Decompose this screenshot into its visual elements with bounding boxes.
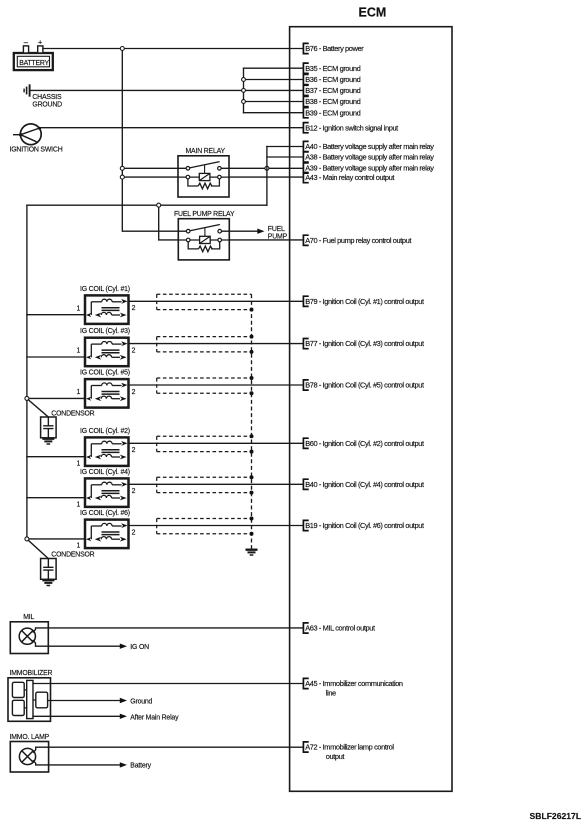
node fuel pump relay coil tap — [157, 203, 161, 207]
node bus B38 — [242, 100, 246, 104]
wire coil #3 pin2 to ECM — [129, 343, 303, 345]
condensor 1 CONDENSOR — [41, 410, 95, 444]
wire coil #1 pin2 to ECM — [129, 300, 303, 302]
svg-text:A40 - Battery voltage supply a: A40 - Battery voltage supply after main … — [305, 142, 434, 151]
svg-text:FUEL: FUEL — [268, 226, 285, 233]
svg-text:2: 2 — [132, 305, 136, 312]
wire battery feed to main relay coil — [124, 176, 178, 178]
wire bus to B38 — [244, 101, 303, 103]
wire coil #5 pin1 feed — [27, 397, 85, 399]
pin B77 — [303, 339, 424, 349]
wire after-main-relay horizontal to left bus — [27, 204, 267, 206]
svg-text:2: 2 — [132, 529, 136, 536]
pin B76 — [303, 43, 364, 53]
wire bus to B35 — [244, 67, 303, 69]
pin A70 — [303, 235, 411, 245]
svg-text:CONDENSOR: CONDENSOR — [51, 552, 94, 559]
svg-text:CHASSIS: CHASSIS — [32, 94, 62, 101]
svg-text:output: output — [326, 752, 345, 761]
wire main relay output to A39 — [229, 167, 303, 169]
pin B38 — [303, 96, 360, 106]
svg-text:IG COIL (Cyl. #3): IG COIL (Cyl. #3) — [80, 328, 130, 335]
svg-text:BATTERY: BATTERY — [19, 60, 49, 67]
wire to A38 — [267, 156, 303, 158]
svg-text:ECM: ECM — [359, 6, 387, 20]
shield dashed loop coil #6 — [157, 519, 252, 534]
svg-text:A70 - Fuel pump relay control: A70 - Fuel pump relay control output — [305, 236, 411, 245]
svg-text:B79 - Ignition Coil (Cyl. #1): B79 - Ignition Coil (Cyl. #1) control ou… — [305, 297, 424, 306]
ignition coil IG COIL (Cyl. #2) — [77, 428, 136, 468]
svg-text:+: + — [38, 38, 43, 47]
wire immobilizer to A45 — [33, 683, 303, 685]
ignition switch — [10, 124, 63, 154]
wire immobilizer to After Main Relay — [33, 714, 179, 722]
wire A40/A38 branch vertical — [266, 147, 268, 206]
svg-text:A45 - Immobilizer communicatio: A45 - Immobilizer communication — [305, 679, 403, 688]
svg-text:B39 - ECM ground: B39 - ECM ground — [305, 108, 360, 117]
pin B36 — [303, 74, 360, 84]
ground shield bus — [246, 550, 258, 555]
svg-text:1: 1 — [77, 305, 81, 312]
shield dashed loop coil #4 — [157, 477, 252, 492]
svg-text:B60 - Ignition Coil (Cyl. #2): B60 - Ignition Coil (Cyl. #2) control ou… — [305, 439, 424, 448]
node shield bus junction — [250, 475, 254, 479]
svg-text:B38 - ECM ground: B38 - ECM ground — [305, 97, 360, 106]
wire coil #6 pin2 to ECM — [129, 525, 303, 527]
node condensor 2 tap — [25, 537, 29, 541]
ignition coil IG COIL (Cyl. #1) — [77, 286, 136, 324]
wire MIL to IG ON — [33, 640, 149, 651]
node shield bus junction — [250, 335, 254, 339]
wire coil #2 pin2 to ECM — [129, 442, 303, 444]
svg-text:2: 2 — [132, 347, 136, 354]
pin A72 — [303, 742, 394, 761]
svg-text:B77 - Ignition Coil (Cyl. #3): B77 - Ignition Coil (Cyl. #3) control ou… — [305, 339, 424, 348]
pin A38 — [303, 152, 434, 162]
svg-text:CONDENSOR: CONDENSOR — [51, 410, 94, 417]
svg-text:2: 2 — [132, 447, 136, 454]
svg-text:A38 - Battery voltage supply a: A38 - Battery voltage supply after main … — [305, 153, 434, 162]
wire immo lamp to A72 — [33, 747, 302, 752]
svg-text:1: 1 — [77, 460, 81, 467]
svg-text:After Main Relay: After Main Relay — [130, 714, 179, 721]
condensor 2 CONDENSOR — [41, 552, 95, 586]
node shield bus junction — [250, 532, 254, 536]
wire to A40 — [267, 146, 303, 148]
svg-text:IG COIL (Cyl. #4): IG COIL (Cyl. #4) — [80, 469, 130, 476]
node shield bus junction — [250, 450, 254, 454]
wire condensor 2 diagonal — [28, 540, 48, 558]
svg-text:IGNITION SWICH: IGNITION SWICH — [10, 147, 63, 154]
svg-text:B78 - Ignition Coil (Cyl. #5): B78 - Ignition Coil (Cyl. #5) control ou… — [305, 381, 424, 390]
wire tap down to fuel pump relay coil — [159, 207, 179, 240]
ECM module box — [290, 6, 452, 792]
wire immo lamp to Battery — [33, 761, 151, 770]
pin B37 — [303, 85, 360, 95]
svg-text:B36 - ECM ground: B36 - ECM ground — [305, 75, 360, 84]
node shield bus junction — [250, 491, 254, 495]
immobilizer IMMOBILIZER — [8, 670, 53, 721]
svg-text:Battery: Battery — [130, 763, 151, 770]
main relay MAIN RELAY — [178, 148, 229, 197]
svg-text:line: line — [326, 689, 336, 698]
wire coil #2 pin1 feed — [27, 456, 85, 458]
wire coil #4 pin2 to ECM — [129, 483, 303, 485]
node shield bus junction — [250, 434, 254, 438]
node shield bus junction — [250, 308, 254, 312]
svg-text:IG COIL (Cyl. #2): IG COIL (Cyl. #2) — [80, 428, 130, 435]
svg-text:IMMO. LAMP: IMMO. LAMP — [10, 734, 50, 741]
wire coil #5 pin2 to ECM — [129, 384, 303, 386]
svg-text:A43 - Main relay control outpu: A43 - Main relay control output — [305, 173, 394, 182]
node main relay switch feed — [120, 166, 124, 170]
pin B39 — [303, 108, 360, 118]
wire battery feed vertical down to fuel pump relay — [122, 51, 178, 232]
wire battery to B76 — [43, 48, 303, 50]
node shield bus junction — [250, 517, 254, 521]
svg-text:2: 2 — [132, 389, 136, 396]
shield dashed loop coil #5 — [157, 378, 252, 393]
pin B12 — [303, 123, 398, 133]
ignition coil IG COIL (Cyl. #5) — [77, 370, 136, 408]
wire condensor 1 diagonal — [28, 400, 48, 417]
wire ECM ground bus vertical — [243, 68, 245, 113]
svg-text:B19 - Ignition Coil (Cyl. #6): B19 - Ignition Coil (Cyl. #6) control ou… — [305, 521, 424, 530]
ignition coil IG COIL (Cyl. #6) — [77, 510, 136, 550]
wire bus to B36 — [244, 79, 303, 81]
svg-text:MIL: MIL — [23, 614, 34, 621]
pin A39 — [303, 163, 434, 173]
shield dashed loop coil #3 — [157, 337, 252, 352]
svg-text:1: 1 — [77, 501, 81, 508]
svg-text:IG ON: IG ON — [130, 644, 149, 651]
svg-text:IG COIL (Cyl. #5): IG COIL (Cyl. #5) — [80, 370, 130, 377]
svg-text:IG COIL (Cyl. #1): IG COIL (Cyl. #1) — [80, 286, 130, 293]
node shield bus junction — [250, 391, 254, 395]
node shield bus junction — [250, 376, 254, 380]
MIL lamp — [10, 614, 48, 654]
shield dashed loop coil #2 — [157, 436, 252, 451]
svg-text:IG COIL (Cyl. #6): IG COIL (Cyl. #6) — [80, 510, 130, 517]
svg-text:SBLF26217L: SBLF26217L — [530, 811, 582, 821]
pin B19 — [303, 520, 424, 530]
svg-text:FUEL PUMP RELAY: FUEL PUMP RELAY — [174, 211, 235, 218]
svg-text:B40 - Ignition Coil (Cyl. #4): B40 - Ignition Coil (Cyl. #4) control ou… — [305, 480, 424, 489]
svg-text:MAIN RELAY: MAIN RELAY — [186, 148, 226, 155]
wire main relay coil to A43 — [229, 176, 303, 178]
node after-main-relay junction — [265, 166, 269, 170]
svg-text:A39 - Battery voltage supply a: A39 - Battery voltage supply after main … — [305, 164, 434, 173]
svg-text:IMMOBILIZER: IMMOBILIZER — [10, 670, 53, 677]
svg-text:B12 - Ignition switch signal i: B12 - Ignition switch signal input — [305, 123, 398, 132]
pin B60 — [303, 438, 424, 448]
svg-text:B37 - ECM ground: B37 - ECM ground — [305, 86, 360, 95]
node main relay coil feed — [120, 175, 124, 179]
pin A43 — [303, 173, 394, 183]
shield drain dashed bus — [251, 294, 253, 549]
wire coil #6 pin1 feed — [27, 538, 85, 540]
pin A63 — [303, 623, 375, 633]
svg-text:GROUND: GROUND — [32, 101, 62, 108]
wire coil #1 pin1 feed — [27, 314, 85, 316]
wire MIL to A63 — [33, 628, 303, 632]
wire ignition switch to B12 — [41, 127, 303, 129]
wire left coil feed vertical bus — [26, 205, 28, 539]
fuel pump relay FUEL PUMP RELAY — [174, 211, 235, 260]
svg-text:2: 2 — [132, 488, 136, 495]
node shield bus junction — [250, 350, 254, 354]
wire fuel pump relay coil to A70 — [229, 239, 302, 241]
svg-text:A63 - MIL control output: A63 - MIL control output — [305, 624, 375, 633]
svg-text:1: 1 — [77, 543, 81, 550]
ignition coil IG COIL (Cyl. #3) — [77, 328, 136, 366]
ignition coil IG COIL (Cyl. #4) — [77, 469, 136, 509]
pin A40 — [303, 141, 434, 151]
wire chassis ground to B37 — [31, 89, 303, 91]
svg-text:B35 - ECM ground: B35 - ECM ground — [305, 64, 360, 73]
pin B35 — [303, 63, 360, 73]
pin B40 — [303, 479, 424, 489]
shield dashed loop coil #1 — [157, 294, 252, 309]
svg-text:1: 1 — [77, 348, 81, 355]
wire battery feed to main relay switch — [124, 167, 178, 169]
svg-text:1: 1 — [77, 389, 81, 396]
wire immobilizer to Ground — [48, 698, 153, 706]
pin B79 — [303, 296, 424, 306]
immobilizer lamp IMMO. LAMP — [10, 734, 50, 772]
node condensor 1 tap — [25, 396, 29, 400]
chassis ground symbol — [24, 84, 62, 108]
battery BATTERY — [14, 37, 53, 70]
svg-text:B76 - Battery power: B76 - Battery power — [305, 44, 364, 53]
node bus B36 — [242, 78, 246, 82]
pin A45 — [303, 678, 403, 697]
pin B78 — [303, 380, 424, 390]
wire bus to B39 — [244, 112, 303, 114]
wire coil #4 pin1 feed — [27, 497, 85, 499]
svg-text:A72 - Immobilizer lamp control: A72 - Immobilizer lamp control — [305, 743, 394, 752]
svg-text:Ground: Ground — [130, 699, 152, 706]
wire coil #3 pin1 feed — [27, 356, 85, 358]
wire fuel pump relay output arrow FUEL PUMP — [229, 226, 287, 241]
node battery feed junction — [120, 47, 124, 51]
node bus B37 — [242, 89, 246, 93]
